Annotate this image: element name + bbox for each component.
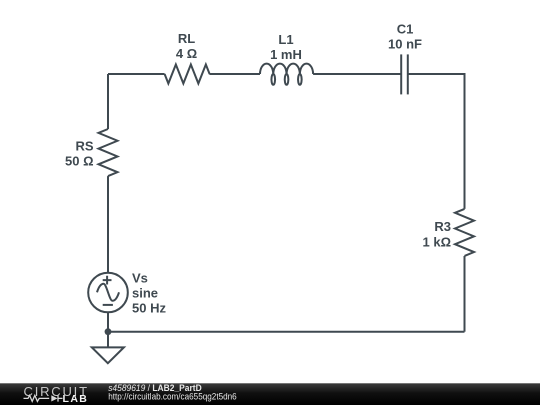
svg-text:4 Ω: 4 Ω [176, 46, 197, 61]
svg-text:50 Ω: 50 Ω [65, 154, 94, 169]
wire R3 down to bottom-right corner [464, 256, 466, 332]
svg-text:sine: sine [132, 286, 158, 301]
source Vs minus sign [103, 304, 113, 306]
resistor RL [165, 65, 210, 84]
source Vs circle [88, 273, 128, 313]
wire between RL and L1 [209, 73, 260, 75]
ground symbol [92, 347, 124, 363]
svg-text:http://circuitlab.com/ca655qg2: http://circuitlab.com/ca655qg2t5dn6 [108, 392, 237, 402]
wire left vertical top (corner to RS) [107, 74, 109, 129]
wire RS to Vs [107, 176, 109, 273]
source Vs plus sign [103, 276, 112, 285]
svg-text:RS: RS [75, 139, 93, 154]
svg-text:LAB: LAB [63, 393, 89, 405]
svg-text:RL: RL [178, 31, 195, 46]
footer bar [0, 383, 540, 405]
resistor RS [99, 129, 118, 176]
wire Vs to ground node [107, 312, 109, 347]
node junction dot [105, 328, 112, 335]
svg-text:Vs: Vs [132, 271, 148, 286]
capacitor C1 left plate [400, 54, 402, 94]
inductor L1 [260, 64, 313, 85]
wire bottom horizontal [108, 331, 465, 333]
wire C1 to top-right corner and down to R3 [408, 74, 465, 209]
source Vs sine wave [97, 284, 119, 301]
svg-text:R3: R3 [434, 219, 451, 234]
wire between L1 and C1 [313, 73, 401, 75]
svg-text:1 mH: 1 mH [270, 47, 302, 62]
svg-text:50 Hz: 50 Hz [132, 301, 166, 316]
footer logo squiggle: resistor + diode [24, 395, 63, 401]
svg-text:L1: L1 [278, 32, 293, 47]
resistor R3 [455, 209, 474, 256]
capacitor C1 right plate [407, 54, 409, 94]
svg-text:C1: C1 [397, 22, 414, 37]
wire top-left horizontal segment [108, 73, 165, 75]
svg-text:10 nF: 10 nF [388, 37, 422, 52]
svg-text:1 kΩ: 1 kΩ [423, 235, 452, 250]
